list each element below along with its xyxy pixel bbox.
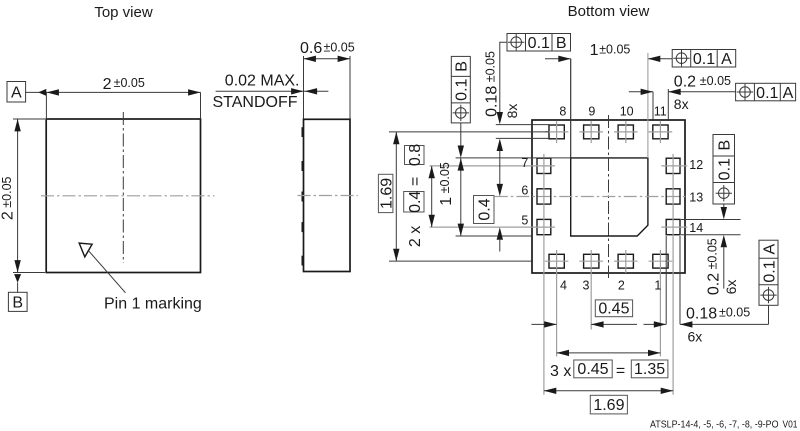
pad 14 top/bottom edge extension lines (right) xyxy=(681,218,741,220)
svg-text:1: 1 xyxy=(590,42,599,59)
svg-text:B: B xyxy=(717,140,734,151)
svg-text:0.1: 0.1 xyxy=(761,260,778,282)
pad 6 xyxy=(537,189,551,204)
svg-text:B: B xyxy=(556,35,567,52)
svg-text:ATSLP-14-4, -5, -6, -7, -8, -9: ATSLP-14-4, -5, -6, -7, -8, -9-PO xyxy=(650,420,779,431)
FCF position 0.1 A (top right) xyxy=(672,50,736,69)
pad 2 xyxy=(618,254,633,268)
boxed label 1.69 (left) xyxy=(378,174,393,212)
dim 1 ±0.05 vertical (exposed pad height) xyxy=(460,158,462,236)
svg-text:A: A xyxy=(721,51,732,68)
pad 5 xyxy=(537,219,551,234)
pad 9 xyxy=(584,125,599,139)
dimension 2±0.05 horizontal: line xyxy=(26,91,201,93)
pad 4 center extension down to 3x0.45 dim xyxy=(556,250,558,357)
svg-text:1.35: 1.35 xyxy=(634,361,665,378)
pad 1 xyxy=(653,254,668,268)
dim 1.69 vertical (pad row centers) xyxy=(395,132,397,261)
pad centerline crosshairs xyxy=(556,121,558,143)
pad 5 center extension to 2x0.4 dim xyxy=(430,226,556,228)
svg-text:0.8: 0.8 xyxy=(407,144,424,166)
extension line exposed pad right edge up xyxy=(647,53,649,158)
right column centerline down to 1.69 dim xyxy=(672,154,674,395)
svg-text:8x: 8x xyxy=(674,96,689,112)
svg-text:0.1: 0.1 xyxy=(454,78,471,100)
dim 0.18 ±0.05 6x (pad 14 width): dimension line xyxy=(591,323,637,325)
FCF B right leader down to pad 14 top edge xyxy=(723,204,725,208)
package body outline (side view) xyxy=(304,119,351,271)
pin 1 marking leader xyxy=(89,251,126,293)
svg-text:1.69: 1.69 xyxy=(378,178,395,209)
FCF position 0.1 B (right rotated) xyxy=(713,135,735,205)
svg-text:0.45: 0.45 xyxy=(598,300,629,317)
svg-text:1: 1 xyxy=(654,278,661,292)
svg-text:0.1: 0.1 xyxy=(693,51,715,68)
FCF position 0.1 B (top) xyxy=(507,34,571,53)
svg-text:0.45: 0.45 xyxy=(577,361,608,378)
FCF position 0.1 A (bottom right rotated) xyxy=(759,240,778,305)
extension line right of top dim xyxy=(200,92,202,118)
svg-text:0.02 MAX.: 0.02 MAX. xyxy=(225,72,300,89)
dim 3 x 0.45 = 1.35 (pad 4 to pad 1 centers) xyxy=(557,352,661,354)
FCF position 0.1 B (left rotated) xyxy=(451,56,470,123)
svg-text:0.4: 0.4 xyxy=(407,191,424,213)
extension line left of top dim xyxy=(45,92,47,118)
svg-text:8: 8 xyxy=(559,104,566,118)
svg-text:2: 2 xyxy=(103,76,112,93)
standoff leader line with opposing arrows at package edge xyxy=(216,90,329,92)
svg-text:5: 5 xyxy=(521,214,528,228)
svg-text:STANDOFF: STANDOFF xyxy=(212,94,297,111)
dim 1.69 horizontal (pad column centers) xyxy=(544,390,673,392)
pin 1 marking triangle xyxy=(79,243,92,257)
side view pad bumps xyxy=(302,127,304,137)
svg-text:13: 13 xyxy=(689,190,703,204)
svg-text:2 x: 2 x xyxy=(407,226,424,247)
dim 1 ±0.05 (exposed pad width): dimension line xyxy=(545,58,571,60)
pad 3 center extension down to 0.45 dim xyxy=(590,250,592,330)
pad 12 xyxy=(666,158,680,173)
pad 14 center arm xyxy=(661,226,687,228)
FCF position 0.1 A (right, 0.2 dim) xyxy=(736,83,796,102)
side view centerline xyxy=(298,195,358,197)
svg-text:±0.05: ±0.05 xyxy=(324,40,355,54)
svg-text:2: 2 xyxy=(618,278,625,292)
svg-text:3: 3 xyxy=(583,278,590,292)
dim 0.4 lower arrow (pad 6 to pad 5) xyxy=(497,227,503,239)
svg-text:7: 7 xyxy=(521,156,528,170)
pad 12 center arm xyxy=(661,165,687,167)
datum B solid triangle xyxy=(14,274,21,283)
svg-text:8x: 8x xyxy=(504,104,520,119)
datum B box xyxy=(8,292,27,311)
pad 14 left/right edge extensions down xyxy=(665,236,667,324)
pad 2 center arm xyxy=(625,250,627,273)
svg-text:±0.05: ±0.05 xyxy=(599,42,630,56)
pad 1 center extension down to 3x0.45 dim xyxy=(659,250,661,357)
svg-text:11: 11 xyxy=(654,104,667,118)
exposed pad top edge extension line xyxy=(456,157,571,159)
vertical centerline (top view) xyxy=(122,112,124,263)
svg-text:Pin 1 marking: Pin 1 marking xyxy=(104,296,202,313)
pad 10 xyxy=(618,125,633,139)
svg-text:4: 4 xyxy=(560,278,567,292)
svg-text:A: A xyxy=(783,85,794,102)
exposed pad bottom edge extension line xyxy=(456,235,532,237)
dim 0.18 ±0.05 8x vertical (pad 8 height), lower arrow + line to 0.4 dim xyxy=(497,139,503,151)
svg-text:0.1: 0.1 xyxy=(528,35,550,52)
pad 11 edge extension lines xyxy=(652,92,654,119)
package outline (bottom view) xyxy=(532,120,685,273)
svg-text:0.1: 0.1 xyxy=(717,158,734,180)
svg-text:0.1: 0.1 xyxy=(756,85,778,102)
pad 8 row center extension line xyxy=(389,131,549,133)
dim 0.45 (pad 4 to pad 3 centers): left segment xyxy=(531,323,556,325)
svg-text:6x: 6x xyxy=(688,328,703,344)
pad 7 center extension to 2x0.4 dim xyxy=(430,165,556,167)
dim arrow left (tip at left ext) xyxy=(47,89,59,95)
svg-text:=: = xyxy=(407,177,424,186)
exposed pad outline with chamfer xyxy=(571,158,648,236)
svg-text:±0.05: ±0.05 xyxy=(114,76,145,90)
svg-text:6: 6 xyxy=(521,184,528,198)
pad 8 xyxy=(549,125,564,139)
pad 14 xyxy=(666,219,680,234)
pad 3 xyxy=(584,254,599,268)
dimension 2±0.05 vertical: line xyxy=(17,119,19,273)
svg-text:A: A xyxy=(11,85,22,102)
boxed label 0.45 xyxy=(595,300,632,317)
package body outline (top view) xyxy=(46,119,200,273)
dim 0.2 ±0.05 6x vertical (pad 14 height), lower arrow xyxy=(721,235,727,247)
svg-text:±0.05: ±0.05 xyxy=(700,74,731,88)
extension line exposed pad left edge up xyxy=(570,59,572,158)
dim 0.2 ±0.05 8x (pad 11 width): dimension line xyxy=(629,91,653,93)
svg-text:0.2: 0.2 xyxy=(674,74,696,91)
FCF A leader down to 0.18 dim line xyxy=(768,305,770,324)
horizontal centerline (bottom view) xyxy=(495,196,688,198)
pad 13 xyxy=(666,189,680,204)
PADS xyxy=(430,121,688,395)
boxed label 1.69 (bottom) xyxy=(590,395,627,414)
datum A box xyxy=(7,82,26,103)
svg-text:Bottom view: Bottom view xyxy=(568,3,650,20)
pad 4 xyxy=(549,254,564,268)
bottom row center extension line xyxy=(389,260,532,262)
svg-text:=: = xyxy=(616,363,625,380)
dimension 2±0.05 vertical: ext lines xyxy=(13,118,45,120)
pad 11 xyxy=(653,125,668,139)
dim arrow up xyxy=(14,119,20,131)
datum B leader stub xyxy=(17,283,19,293)
svg-text:±0.05: ±0.05 xyxy=(719,306,750,320)
vertical centerline (bottom view) xyxy=(608,115,610,278)
horizontal centerline (top view) xyxy=(41,195,215,197)
FCF B left leader down to exposed pad top xyxy=(460,123,462,146)
svg-text:0.18: 0.18 xyxy=(686,305,717,322)
svg-text:V01: V01 xyxy=(783,420,798,431)
svg-text:A: A xyxy=(761,244,778,255)
dim arrow down xyxy=(14,260,20,272)
dim arrow right xyxy=(188,89,200,95)
datum A solid triangle xyxy=(38,89,46,96)
svg-text:1.69: 1.69 xyxy=(593,397,624,414)
boxed label 0.4 xyxy=(474,196,495,224)
FCF B leader down to pad 8 top edge xyxy=(500,42,507,112)
svg-text:3 x: 3 x xyxy=(550,363,571,380)
pad 8 top/bottom edge extension lines xyxy=(496,124,549,126)
svg-text:9: 9 xyxy=(588,104,595,118)
svg-text:B: B xyxy=(454,61,471,72)
svg-text:0.4: 0.4 xyxy=(477,198,494,220)
dim 2 x 0.4 = 0.8 vertical (pad 7 to pad 5 centers) xyxy=(431,166,433,227)
svg-text:B: B xyxy=(12,294,23,311)
dimension 0.6: dim line with inside arrows xyxy=(304,58,351,60)
pad 7 xyxy=(537,158,551,173)
svg-text:12: 12 xyxy=(689,158,703,172)
svg-text:0.6: 0.6 xyxy=(300,40,322,57)
svg-text:6x: 6x xyxy=(723,280,739,295)
svg-text:14: 14 xyxy=(689,221,703,235)
extension lines 0.6 dim xyxy=(303,56,305,119)
svg-text:10: 10 xyxy=(620,104,634,118)
svg-text:Top view: Top view xyxy=(94,4,153,21)
left column centerline down to 1.69 dim xyxy=(543,154,545,395)
